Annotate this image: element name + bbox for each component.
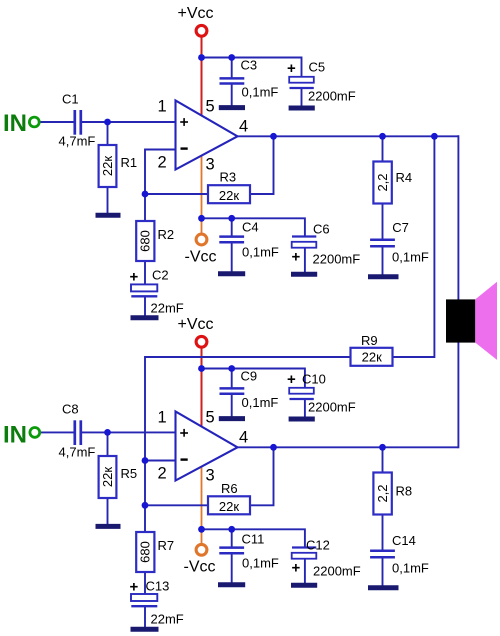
svg-text:22к: 22к (362, 350, 382, 365)
wire IN to C1 (39, 121, 74, 123)
wire output 2 to R8 top (382, 447, 384, 473)
wire U1 -input to feedback node (145, 150, 176, 196)
wire +Vcc red vertical to U2 pin5 (201, 348, 203, 431)
node -Vcc rail top (198, 215, 205, 222)
wire -Vcc rail top with C6 drop (202, 218, 305, 236)
wire +Vcc red vertical to U1 pin5 (201, 37, 203, 120)
svg-text:+Vcc: +Vcc (178, 5, 214, 22)
wire C3 drop (231, 58, 233, 78)
capacitor C6 electrolytic (292, 237, 317, 248)
wire C10 to ground (304, 399, 306, 418)
wire -Vcc orange vertical from U2 pin3 (201, 463, 203, 545)
wire feedback node 2 to R7 top (144, 505, 146, 532)
wire node to R5 top (107, 432, 109, 456)
wire R7 bottom to C13 (144, 572, 146, 595)
wire U1 output rail (236, 135, 458, 137)
node C3 tap (228, 54, 235, 61)
wire node to R1 top (107, 122, 109, 146)
wire C13 to ground (144, 607, 146, 628)
op-amp U2 (176, 412, 238, 481)
capacitor C11 (219, 548, 244, 554)
wire C6 to ground (304, 248, 306, 273)
svg-text:0,1mF: 0,1mF (392, 561, 429, 576)
wire R6 right up to output 2 (250, 447, 274, 505)
node -Vcc rail bottom (198, 526, 205, 533)
svg-text:5: 5 (206, 98, 215, 116)
wire C14 to ground (382, 559, 384, 587)
svg-text:R1: R1 (121, 155, 138, 170)
svg-text:C9: C9 (241, 369, 258, 384)
svg-text:2: 2 (158, 465, 167, 483)
svg-text:C13: C13 (146, 579, 170, 594)
wire feedback node 2 to R6 left (145, 504, 208, 506)
node feedback 1 (142, 191, 149, 198)
ground for C2 (131, 315, 159, 320)
svg-text:C6: C6 (313, 222, 330, 237)
svg-text:-Vcc: -Vcc (185, 249, 217, 266)
svg-text:C4: C4 (242, 220, 259, 235)
capacitor C2 electrolytic (131, 284, 157, 296)
ground for C7 (368, 274, 399, 279)
resistor R9 (351, 348, 393, 366)
ground for C14 (368, 585, 399, 590)
wire R9 to U2 feedback node (145, 357, 351, 506)
wire C1 to U1 +input (82, 121, 176, 123)
wire -Vcc rail bottom with C12 drop (202, 529, 305, 547)
svg-text:0,1mF: 0,1mF (242, 395, 279, 410)
terminal IN2 (30, 428, 40, 438)
svg-text:5: 5 (206, 409, 215, 427)
speaker (446, 282, 497, 360)
svg-text:C5: C5 (309, 60, 326, 75)
svg-text:3: 3 (206, 156, 215, 174)
svg-text:+: + (130, 269, 139, 286)
node -input 2 (142, 457, 149, 464)
wire U2 output rail (236, 446, 458, 448)
wire C12 to ground (304, 559, 306, 584)
svg-text:2,2: 2,2 (375, 173, 390, 191)
wire C5 to ground (301, 88, 303, 107)
capacitor C1 (75, 110, 81, 135)
node input 1 (104, 119, 111, 126)
node C9 tap (228, 365, 235, 372)
node output 1 / R9 branch (431, 133, 438, 140)
svg-text:R7: R7 (158, 538, 175, 553)
wire C11 to ground (231, 555, 233, 584)
capacitor C8 (75, 420, 81, 445)
ground for R1 (96, 213, 121, 218)
svg-text:C2: C2 (152, 268, 169, 283)
svg-text:R5: R5 (121, 466, 138, 481)
wire output down to R9 (393, 136, 435, 357)
capacitor C4 (219, 237, 244, 243)
resistor R8 (373, 473, 391, 515)
svg-text:IN: IN (3, 421, 27, 448)
svg-text:22к: 22к (219, 188, 239, 203)
ground for C12 (291, 583, 317, 588)
svg-text:R4: R4 (396, 170, 413, 185)
svg-text:-Vcc: -Vcc (184, 559, 216, 576)
resistor R1 (99, 145, 117, 187)
wire R8 bottom to C14 (382, 514, 384, 550)
svg-text:+: + (292, 559, 301, 576)
terminal -Vcc bottom (196, 544, 207, 555)
svg-text:C14: C14 (392, 533, 416, 548)
svg-text:4: 4 (239, 118, 248, 136)
node output 1 / R4 (379, 133, 386, 140)
svg-text:680: 680 (138, 230, 153, 252)
svg-text:C3: C3 (241, 58, 258, 73)
terminal IN1 (29, 117, 39, 127)
wire right vertical through speaker (457, 135, 459, 448)
svg-text:22к: 22к (100, 156, 115, 176)
node output 2 / R8 (379, 444, 386, 451)
ground for C6 (291, 272, 317, 277)
svg-text:2200mF: 2200mF (313, 564, 361, 579)
wire U2 -input branch (145, 460, 176, 462)
wire C2 to ground (144, 297, 146, 317)
svg-text:C7: C7 (392, 220, 409, 235)
svg-text:22mF: 22mF (151, 612, 184, 627)
ground for C3 (219, 105, 245, 110)
svg-text:R6: R6 (221, 481, 238, 496)
svg-text:R3: R3 (220, 170, 237, 185)
ground for C9 (219, 416, 245, 421)
node C4 tap (228, 215, 235, 222)
node output 2 / R6 (270, 444, 277, 451)
wire C3 to ground (231, 84, 233, 106)
wire feedback node to R2 top (144, 194, 146, 222)
svg-text:2200mF: 2200mF (308, 89, 356, 104)
svg-text:22к: 22к (219, 499, 239, 514)
ground for C5 (289, 106, 315, 111)
capacitor C3 (220, 78, 245, 83)
svg-text:22mF: 22mF (151, 301, 184, 316)
svg-text:4,7mF: 4,7mF (59, 134, 96, 149)
ground for C13 (131, 627, 159, 632)
terminal +Vcc bottom (196, 336, 207, 347)
wire +Vcc rail top with C5 drop (202, 58, 302, 78)
wire R1 bottom to ground (107, 187, 109, 214)
ground for C11 (218, 582, 245, 587)
wire C4 to ground (231, 244, 233, 273)
ground for R5 (96, 524, 121, 529)
node output 1 / R3 (270, 133, 277, 140)
resistor R4 (373, 162, 391, 204)
capacitor C12 electrolytic (292, 548, 317, 559)
capacitor C5 electrolytic (289, 77, 314, 88)
wire C8 to U2 +input (82, 431, 176, 433)
svg-text:R9: R9 (361, 333, 378, 348)
svg-text:C8: C8 (62, 402, 79, 417)
svg-text:1: 1 (158, 98, 167, 116)
svg-text:R8: R8 (396, 484, 413, 499)
capacitor C9 (220, 388, 245, 393)
wire C9 to ground (231, 395, 233, 417)
svg-text:+: + (292, 248, 301, 265)
node +Vcc rail bottom (198, 365, 205, 372)
svg-text:IN: IN (3, 110, 27, 137)
svg-text:2200mF: 2200mF (313, 252, 361, 267)
svg-text:+Vcc: +Vcc (178, 316, 214, 333)
svg-text:+: + (287, 60, 296, 77)
wire C9 drop (231, 369, 233, 389)
svg-text:0,1mF: 0,1mF (392, 250, 429, 265)
svg-text:1: 1 (158, 409, 167, 427)
terminal -Vcc top (196, 234, 207, 245)
svg-text:22к: 22к (100, 467, 115, 487)
svg-text:+: + (130, 579, 139, 596)
wire R4 bottom to C7 (382, 203, 384, 239)
svg-text:0,1mF: 0,1mF (242, 85, 279, 100)
wire R2 bottom to C2 (144, 261, 146, 286)
wire IN2 to C8 (39, 431, 74, 433)
svg-text:0,1mF: 0,1mF (242, 245, 279, 260)
capacitor C10 electrolytic (289, 388, 314, 399)
capacitor C14 (370, 551, 395, 558)
capacitor C13 electrolytic (131, 594, 157, 606)
svg-text:C10: C10 (302, 372, 326, 387)
svg-text:2: 2 (158, 154, 167, 172)
svg-text:0,1mF: 0,1mF (242, 556, 279, 571)
svg-text:+: + (287, 371, 296, 388)
resistor R6 (208, 496, 250, 514)
ground for C4 (218, 271, 245, 276)
svg-text:C1: C1 (62, 92, 79, 107)
capacitor C7 (370, 240, 395, 247)
svg-text:C11: C11 (242, 532, 265, 547)
wire R5 bottom to ground (107, 498, 109, 525)
op-amp U1 (176, 101, 238, 170)
resistor R2 (136, 221, 154, 261)
svg-text:680: 680 (138, 541, 153, 563)
wire C4 drop (231, 218, 233, 237)
wire R3 right up to output (250, 136, 274, 194)
terminal +Vcc top (196, 25, 207, 36)
svg-text:4,7mF: 4,7mF (59, 445, 96, 460)
svg-text:C12: C12 (306, 538, 330, 553)
svg-text:2,2: 2,2 (375, 484, 390, 502)
svg-text:R2: R2 (158, 227, 175, 242)
resistor R3 (208, 185, 250, 203)
wire -Vcc orange vertical from U1 pin3 (201, 152, 203, 235)
svg-text:2200mF: 2200mF (308, 400, 356, 415)
resistor R5 (99, 456, 117, 498)
svg-text:3: 3 (206, 467, 215, 485)
node C11 tap (228, 526, 235, 533)
svg-text:4: 4 (239, 429, 248, 447)
node +Vcc rail top (198, 54, 205, 61)
node input 2 (104, 429, 111, 436)
wire C7 to ground (382, 248, 384, 276)
resistor R7 (136, 532, 154, 572)
wire feedback node to R3 left (145, 193, 208, 195)
node feedback 2 (142, 502, 149, 509)
ground for C10 (289, 417, 315, 422)
wire +Vcc rail bottom with C10 drop (202, 369, 305, 389)
wire C11 drop (231, 529, 233, 548)
wire output to R4 top (382, 136, 384, 162)
